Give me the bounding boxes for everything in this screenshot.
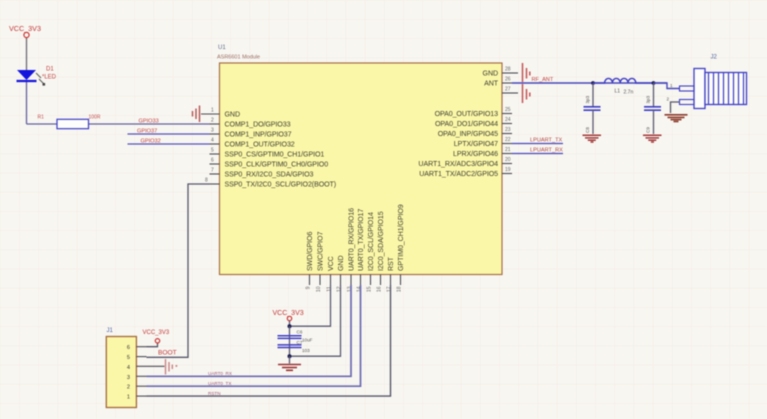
svg-text:I2C0_SDA/GPIO15: I2C0_SDA/GPIO15 (377, 211, 385, 271)
svg-text:3p3: 3p3 (646, 95, 651, 103)
wire BOOT net (pin8 to J1 pin5) (147, 184, 210, 357)
wire J2 pin2 to ground (671, 102, 680, 113)
svg-text:C9: C9 (646, 127, 651, 133)
svg-text:103: 103 (302, 348, 310, 353)
svg-text:BOOT: BOOT (158, 350, 177, 357)
pin 27 GND2 (right) (502, 87, 518, 94)
pin 2 COMP1_DO/GPIO33 (210, 118, 291, 129)
pin 11 VCC (327, 256, 335, 291)
svg-text:7: 7 (211, 168, 214, 174)
svg-text:10: 10 (316, 286, 322, 292)
svg-text:2: 2 (211, 118, 214, 124)
svg-text:13: 13 (347, 286, 353, 292)
svg-text:UART0_TX/GPIO17: UART0_TX/GPIO17 (357, 209, 365, 271)
svg-text:COMP1_INP/GPIO37: COMP1_INP/GPIO37 (225, 131, 292, 139)
junction VCC node (288, 324, 292, 328)
svg-text:U1: U1 (218, 45, 226, 51)
svg-text:2.7n: 2.7n (624, 90, 634, 96)
capacitor C8 (shunt at node1) (584, 83, 601, 134)
J1 pin 3 (127, 375, 147, 381)
power symbol VCC_3V3 (J1) (143, 330, 170, 343)
svg-text:1: 1 (127, 395, 130, 401)
ground symbol below C9 (643, 135, 662, 142)
svg-text:C6: C6 (297, 330, 303, 335)
wire GPIO33 net from resistor to pin 2 (27, 123, 210, 125)
wire from LED to VCC circle (26, 38, 28, 71)
svg-text:GPIO37: GPIO37 (137, 129, 157, 135)
svg-text:COMP1_DO/GPIO33: COMP1_DO/GPIO33 (225, 121, 291, 129)
ground symbol at pin 27 (523, 84, 530, 103)
svg-text:LPTX/GPIO47: LPTX/GPIO47 (454, 140, 498, 148)
svg-text:3: 3 (127, 375, 130, 381)
svg-text:15: 15 (367, 286, 373, 292)
wire cap stack (289, 326, 291, 356)
svg-text:1: 1 (211, 108, 214, 114)
wire RSTN net (147, 285, 391, 396)
module U1 body (220, 63, 503, 275)
svg-text:24: 24 (505, 117, 511, 123)
pin 22 LPTX (454, 137, 512, 148)
pin 5 SSP0_CS (210, 148, 325, 159)
J1 pin 4 (127, 365, 165, 371)
svg-text:GND: GND (337, 256, 345, 271)
svg-text:UART0_RX/GPIO16: UART0_RX/GPIO16 (347, 208, 355, 271)
svg-text:ASR6601 Module: ASR6601 Module (217, 55, 260, 61)
svg-text:VCC_3V3: VCC_3V3 (9, 24, 41, 33)
pin 15 I2C0_SCL/GPIO14 (367, 212, 375, 292)
svg-text:14: 14 (357, 286, 363, 292)
svg-text:21: 21 (505, 147, 511, 153)
svg-text:OPA0_OUT/GPIO13: OPA0_OUT/GPIO13 (435, 110, 499, 118)
power symbol VCC_3V3 (top left) (9, 24, 41, 38)
svg-text:3: 3 (211, 128, 214, 134)
svg-text:OPA0_INP/GPIO45: OPA0_INP/GPIO45 (438, 130, 498, 138)
svg-text:LPRX/GPIO46: LPRX/GPIO46 (453, 150, 498, 158)
svg-text:J2: J2 (711, 55, 718, 61)
svg-text:LPUART_RX: LPUART_RX (530, 148, 563, 154)
svg-text:4: 4 (211, 138, 214, 144)
wire LPUART_TX (512, 143, 563, 145)
wire to antenna connector (654, 83, 680, 89)
svg-text:5: 5 (127, 355, 130, 361)
wire LED branch vertical (26, 82, 28, 124)
J1 pin 5 BOOT (127, 355, 147, 361)
inductor L1 (593, 78, 654, 95)
wire UART0_RX net (147, 285, 352, 376)
J1 pin 6 (127, 345, 147, 351)
svg-text:SSP0_CLK/GPTIM0_CH0/GPIO0: SSP0_CLK/GPTIM0_CH0/GPIO0 (225, 161, 329, 169)
junction GND node (288, 354, 292, 358)
svg-text:UART1_RX/ADC3/GPIO4: UART1_RX/ADC3/GPIO4 (418, 160, 498, 168)
pin 13 UART0_RX/GPIO16 (347, 208, 355, 292)
svg-text:2: 2 (667, 97, 670, 102)
svg-text:VCC: VCC (327, 256, 335, 271)
svg-text:COMP1_OUT/GPIO32: COMP1_OUT/GPIO32 (225, 141, 295, 149)
svg-text:3p3: 3p3 (585, 95, 590, 103)
capacitor C9 (shunt at node2) (644, 83, 661, 134)
svg-text:12: 12 (337, 286, 343, 292)
pin 10 SWC/GPIO7 (316, 232, 324, 293)
ground symbol at J1 pin 4 (166, 359, 178, 375)
svg-text:27: 27 (505, 87, 511, 93)
pin 18 GPTIM0_CH1/GPIO9 (397, 204, 405, 292)
resistor R1 (38, 115, 101, 129)
svg-text:18: 18 (397, 286, 403, 292)
ground symbol below caps (278, 356, 301, 370)
svg-text:26: 26 (505, 77, 511, 83)
svg-text:UART1_TX/ADC2/GPIO5: UART1_TX/ADC2/GPIO5 (419, 170, 498, 178)
pin 3 COMP1_INP/GPIO37 (210, 128, 292, 139)
LED arrows (36, 73, 45, 86)
svg-text:R1: R1 (38, 115, 45, 121)
ground symbol at pin 1 (193, 106, 200, 123)
J1 pin 1 (127, 395, 147, 401)
svg-text:RSTN: RSTN (208, 391, 221, 396)
J2 pin 2 (680, 100, 695, 105)
svg-text:RF_ANT: RF_ANT (532, 77, 554, 83)
svg-text:ANT: ANT (484, 80, 499, 88)
junction RF node 2 (652, 81, 656, 85)
pin 14 UART0_TX/GPIO17 (357, 209, 365, 292)
svg-text:RST: RST (387, 256, 395, 271)
ground symbol at pin 28 (523, 63, 530, 82)
svg-text:SSP0_TX/I2C0_SCL/GPIO2(BOOT): SSP0_TX/I2C0_SCL/GPIO2(BOOT) (225, 181, 337, 189)
svg-text:D1: D1 (46, 67, 54, 73)
wire LPUART_RX (512, 153, 563, 155)
svg-text:C8: C8 (585, 127, 590, 133)
J1 pin 2 (127, 385, 147, 391)
svg-text:UART0_TX: UART0_TX (208, 381, 231, 386)
pin 19 UART1_TX (419, 167, 512, 178)
pin 23 OPA0_INP (438, 127, 512, 138)
svg-text:SWC/GPIO7: SWC/GPIO7 (316, 232, 324, 271)
pin 7 SSP0_RX (210, 168, 314, 179)
svg-text:SWD/GPIO6: SWD/GPIO6 (306, 232, 314, 271)
pin 20 UART1_RX (418, 157, 512, 168)
pin 26 ANT (484, 77, 512, 88)
svg-text:6: 6 (211, 158, 214, 164)
pin 6 SSP0_CLK (210, 158, 329, 169)
junction RF node 1 (591, 81, 595, 85)
svg-text:9: 9 (306, 286, 312, 289)
bottom pins group (306, 204, 405, 292)
svg-text:10uF: 10uF (302, 338, 313, 343)
svg-text:C7: C7 (297, 340, 303, 345)
pin 4 COMP1_OUT/GPIO32 (210, 138, 295, 149)
svg-text:11: 11 (327, 286, 333, 291)
svg-text:GND: GND (483, 70, 498, 78)
wire GPIO32 (128, 143, 210, 145)
svg-text:6: 6 (127, 345, 130, 351)
svg-text:GPIO33: GPIO33 (139, 119, 159, 125)
pin 17 RST (387, 256, 395, 292)
svg-text:L1: L1 (615, 89, 621, 95)
svg-text:5: 5 (211, 148, 214, 154)
svg-text:VCC_3V3: VCC_3V3 (273, 310, 304, 317)
svg-text:LPUART_TX: LPUART_TX (530, 138, 562, 144)
svg-text:1: 1 (670, 83, 673, 88)
pin 1 GND (left) (201, 108, 240, 119)
ground symbol below J2 (665, 115, 688, 122)
svg-text:VCC_3V3: VCC_3V3 (143, 330, 170, 336)
power symbol VCC_3V3 (decoupling) (273, 310, 304, 326)
svg-text:GPTIM0_CH1/GPIO9: GPTIM0_CH1/GPIO9 (397, 204, 405, 271)
svg-text:100R: 100R (89, 115, 101, 121)
svg-text:25: 25 (505, 107, 511, 113)
svg-text:*LED: *LED (42, 75, 57, 81)
wire GPIO37 (128, 133, 210, 135)
pin 8 SSP0_TX (BOOT) (205, 178, 336, 189)
svg-text:GPIO32: GPIO32 (141, 139, 161, 145)
pin 16 I2C0_SDA/GPIO15 (377, 211, 385, 292)
svg-text:2: 2 (127, 385, 130, 391)
wire GND pin to ground node (290, 285, 341, 356)
svg-text:J1: J1 (107, 328, 114, 334)
pin 9 SWD/GPIO6 (306, 232, 314, 290)
svg-text:SSP0_RX/I2C0_SDA/GPIO3: SSP0_RX/I2C0_SDA/GPIO3 (225, 171, 314, 179)
svg-text:SSP0_CS/GPTIM0_CH1/GPIO1: SSP0_CS/GPTIM0_CH1/GPIO1 (225, 151, 325, 159)
pin 25 OPA0_OUT (435, 107, 512, 118)
svg-text:20: 20 (505, 157, 511, 163)
pin 12 GND (337, 256, 345, 293)
svg-text:17: 17 (387, 286, 393, 292)
wire UART0_TX net (147, 285, 361, 386)
pin 24 OPA0_INN (435, 117, 512, 128)
svg-text:4: 4 (127, 365, 130, 371)
LED D1 (17, 67, 57, 82)
svg-text:28: 28 (505, 67, 511, 73)
svg-text:19: 19 (505, 167, 511, 173)
svg-text:GND: GND (225, 111, 240, 119)
antenna connector J2 (667, 55, 747, 109)
J2 pin 1 (680, 86, 695, 91)
svg-text:OPA0_DO1/GPIO44: OPA0_DO1/GPIO44 (435, 120, 498, 128)
svg-text:UART0_RX: UART0_RX (208, 371, 232, 376)
connector J1 body (106, 328, 136, 408)
svg-text:23: 23 (505, 127, 511, 133)
wire RF_ANT net (512, 82, 667, 84)
capacitor C6 10uF (278, 336, 302, 339)
svg-text:16: 16 (377, 286, 383, 292)
svg-text:I2C0_SCL/GPIO14: I2C0_SCL/GPIO14 (367, 212, 375, 271)
wire VCC pin to cap node (290, 285, 331, 326)
capacitor C7 103 (278, 345, 302, 348)
svg-text:22: 22 (505, 137, 511, 143)
svg-text:8: 8 (205, 178, 208, 184)
pin 28 GND (right top) (483, 67, 518, 78)
wire J1 pin6 to VCC (147, 343, 158, 347)
pin 21 LPRX (453, 147, 512, 158)
ground symbol below C8 (583, 135, 602, 142)
